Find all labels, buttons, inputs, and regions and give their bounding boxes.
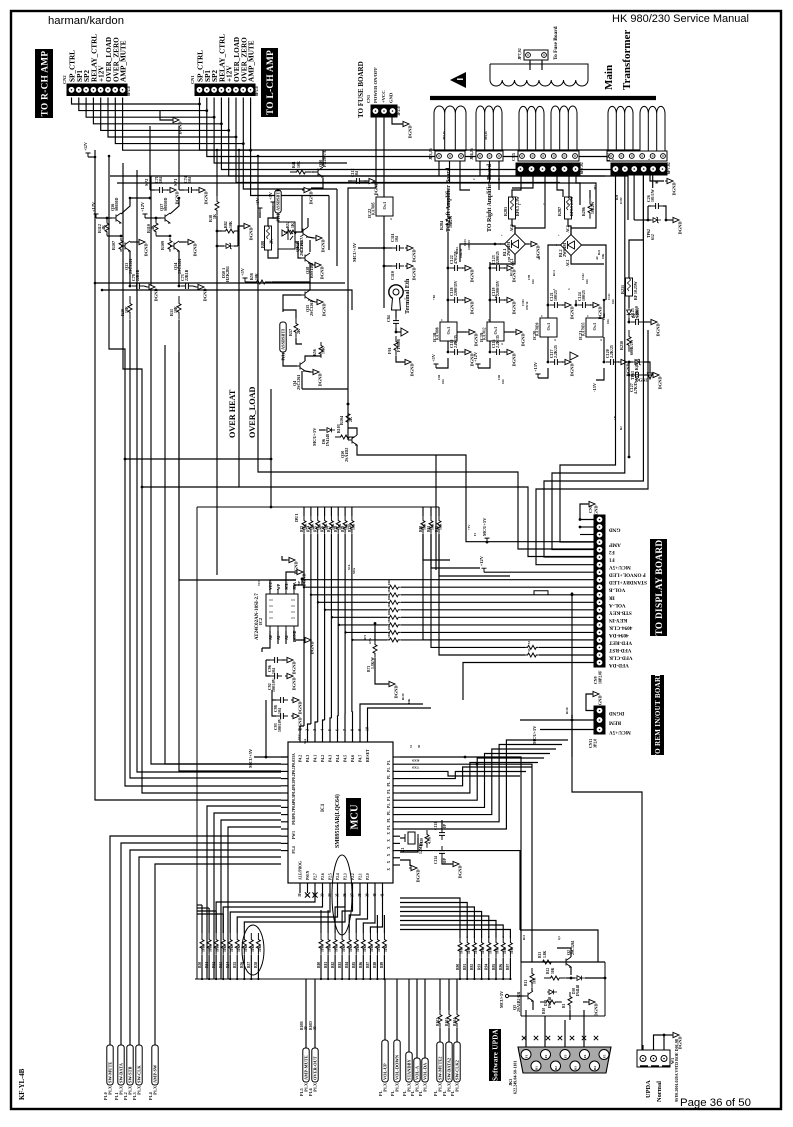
ground C127 (651, 372, 663, 389)
svg-text:VOL-DOWN: VOL-DOWN (395, 1054, 400, 1080)
wire MCU right pin 9 (393, 821, 400, 823)
ground C112 (367, 178, 379, 195)
wire C26 loop left (647, 206, 649, 220)
wire IC2 A2 (285, 631, 287, 644)
wire BL1 minus to gnd (526, 243, 530, 245)
wire MCU left pin 3 (281, 778, 288, 780)
svg-text:10K: 10K (229, 221, 233, 228)
wire IC2 A0 (262, 631, 270, 648)
wire cluster stem down (129, 320, 131, 575)
no-connect X (305, 892, 310, 897)
label box TO L-CH AMP (261, 48, 278, 117)
svg-text:GND: GND (389, 92, 394, 103)
wire bias to lower base (156, 235, 170, 237)
resistor (387, 615, 401, 619)
svg-text:MCU+5V: MCU+5V (532, 725, 537, 744)
resistor R75 10K (316, 516, 320, 534)
svg-text:B3: B3 (573, 1066, 577, 1070)
wire top pin 2 to pullup (308, 724, 311, 734)
ground middle cluster (242, 223, 254, 240)
power flag +12V (473, 351, 481, 368)
svg-text:100/25: 100/25 (554, 290, 558, 301)
wire CN9 VFD-RET row (423, 534, 594, 640)
svg-text:P1.X: P1.X (137, 1086, 142, 1095)
wire CN5 p3 to BL1 (515, 175, 545, 234)
resistor (319, 342, 323, 358)
svg-text:R72: R72 (363, 634, 367, 640)
svg-text:SW-DATA: SW-DATA (119, 1062, 124, 1083)
wire bank1 r0 to bus (201, 955, 203, 979)
wire +5V to opto (273, 206, 278, 218)
wire JK3 pin3 (564, 1020, 566, 1047)
svg-text:R107: R107 (111, 241, 116, 250)
svg-text:CN3: CN3 (366, 95, 371, 103)
junction (647, 219, 650, 222)
wire cap gnd (504, 299, 505, 301)
wire to bank2 r1 (342, 893, 352, 933)
net flag P1.x STANDBY (406, 1052, 412, 1092)
resistor R81 10K (326, 933, 330, 955)
label box TO R-CH AMP (35, 49, 53, 118)
wire cap gnd (590, 304, 591, 306)
svg-text:R1: R1 (562, 1003, 566, 1008)
wire bank1 r4 to bus (229, 955, 231, 979)
svg-text:DGND: DGND (204, 192, 209, 205)
svg-text:10K: 10K (387, 609, 391, 615)
svg-text:P1.: P1. (390, 1090, 395, 1096)
resistor (154, 219, 158, 236)
svg-text:104: 104 (355, 171, 359, 177)
wire BL2 - out (582, 245, 607, 300)
zener diode (633, 359, 643, 365)
annotation ellipse bank1 (242, 925, 264, 975)
wire down to C127 (628, 362, 630, 375)
wire bank3 col 4 (400, 916, 489, 938)
wire bus y290 (102, 290, 352, 310)
svg-text:AMP_MUTE: AMP_MUTE (248, 40, 256, 82)
junction (571, 592, 574, 595)
wire rail B down (489, 262, 491, 322)
svg-text:33: 33 (527, 641, 531, 645)
svg-text:C121: C121 (607, 293, 611, 300)
wire R58 to Q38e (272, 263, 310, 282)
wire xtal1 (400, 837, 405, 839)
wire OVER_LOAD to CN9 F2 (258, 156, 594, 549)
svg-text:VOL-A: VOL-A (415, 1065, 420, 1080)
svg-text:SP1: SP1 (173, 179, 178, 186)
svg-text:MCU+5V: MCU+5V (609, 564, 631, 570)
wire CN2 pin1 to CN1 (72, 98, 200, 105)
wire cap gnd (504, 267, 505, 269)
wire r bottom (120, 251, 122, 253)
transformer separator bar (430, 96, 656, 100)
wire IC20 out (547, 337, 549, 362)
ground Q40 (302, 187, 314, 204)
junction (94, 282, 97, 285)
svg-text:R13: R13 (538, 952, 542, 958)
svg-text:WP: WP (277, 583, 281, 590)
wire MCU right pin5 staircase (400, 767, 532, 786)
bridge rectifier BL1 2W04M (505, 234, 526, 255)
wire MCU right pin8 staircase (400, 754, 550, 808)
svg-text:8P2.0: 8P2.0 (254, 86, 259, 96)
svg-text:1: 1 (377, 193, 379, 197)
svg-text:2K: 2K (349, 417, 353, 422)
junction (489, 267, 492, 270)
connector JK3 622.249.04-S0-1101 (D-sub) (518, 1047, 611, 1073)
wire IC2 vcc rail (270, 580, 296, 589)
svg-text:10K: 10K (467, 947, 471, 954)
svg-text:P2.1: P2.1 (358, 873, 362, 880)
wire MCU bottom pin 5 (337, 883, 339, 893)
junction (489, 299, 492, 302)
resistor R104 33 (455, 1010, 459, 1028)
svg-text:P1.: P1. (402, 1090, 407, 1096)
resistor R90 10K (421, 516, 425, 534)
update circuit outline (521, 962, 605, 1016)
svg-text:10K: 10K (251, 945, 255, 952)
wire bus to flag VOL-DOWN (396, 979, 398, 1040)
svg-text:R104: R104 (453, 1018, 457, 1026)
svg-text:10K: 10K (384, 945, 388, 952)
wire REM line (520, 719, 594, 721)
wire CN2 pin8 to CN1 (123, 98, 251, 151)
resistor R88 10K (375, 933, 379, 955)
power flag +5V (240, 267, 248, 282)
wire pullup 3 down (317, 534, 319, 722)
junction (447, 299, 450, 302)
resistor R97 10K (508, 936, 512, 958)
svg-text:3: 3 (554, 338, 556, 342)
wire CN2 pin4 to CN1 (93, 98, 221, 124)
svg-text:R52: R52 (286, 221, 290, 228)
fusible resistor (626, 278, 633, 296)
junction (603, 299, 606, 302)
svg-text:+5V: +5V (431, 353, 436, 362)
svg-text:VOL-B: VOL-B (608, 587, 625, 593)
svg-text:R87: R87 (366, 962, 370, 968)
wire CN9 VFD-CLK row b (539, 654, 594, 656)
transformer secondary winding 4a (608, 106, 633, 151)
wire rail A down (447, 262, 449, 322)
junction (579, 518, 582, 521)
wire drop x337 (336, 189, 338, 266)
svg-text:-15V: -15V (592, 382, 597, 392)
wire opto cathode (268, 249, 278, 258)
fusible resistor (509, 197, 516, 219)
capacitor (181, 283, 193, 289)
wire long bus to MCU P0.5 (151, 176, 281, 764)
svg-text:CN1: CN1 (190, 75, 195, 84)
svg-text:P2.6: P2.6 (321, 873, 325, 880)
junction (351, 639, 353, 641)
wire bank3 col 3 (400, 912, 482, 939)
svg-text:2200/25: 2200/25 (496, 251, 500, 264)
power +12V top left (84, 142, 91, 157)
ground CN3 (401, 121, 413, 138)
wire bank1 r1 to bus (208, 955, 210, 979)
wire CN9 row12 left (318, 601, 387, 603)
wire MCU bottom pin 4 (329, 883, 331, 893)
connector CN7 (6P7.92) (611, 163, 667, 175)
capacitor (578, 302, 590, 308)
svg-text:P1.: P1. (387, 789, 391, 794)
wire bank1 r6 to bus (243, 955, 245, 979)
svg-text:B4: B4 (593, 1066, 597, 1070)
resistor R76 10K (323, 516, 327, 534)
wire to bank2 r5 (370, 893, 382, 933)
capacitor (606, 359, 618, 365)
power flag +5V (255, 197, 263, 212)
svg-text:DGND: DGND (408, 126, 413, 139)
svg-text:R13: R13 (522, 934, 526, 940)
svg-text:DGND: DGND (474, 334, 479, 347)
svg-text:VCC: VCC (257, 580, 261, 587)
capacitor (439, 828, 445, 840)
wire CN1 pin7 run right (243, 98, 337, 190)
svg-text:R103: R103 (337, 424, 341, 433)
resistor R92 10K (472, 936, 476, 958)
junction (476, 763, 479, 766)
wire bank3 col 1 (400, 903, 467, 939)
wire CN7 p3 down (633, 175, 635, 220)
svg-text:SCL: SCL (347, 564, 351, 570)
wire CN9 row15 left (339, 624, 387, 626)
wire bank3 r3 to bus (481, 958, 483, 979)
resistor (394, 336, 398, 356)
svg-text:HZK2B1: HZK2B1 (225, 266, 230, 282)
svg-text:+15V: +15V (533, 361, 538, 372)
svg-text:VFD-RET: VFD-RET (608, 639, 632, 645)
svg-text:10K: 10K (237, 945, 241, 952)
junction (383, 247, 386, 250)
svg-text:R57: R57 (288, 329, 293, 336)
svg-text:DGND: DGND (658, 377, 663, 390)
wire JP3 drop 3 (460, 161, 470, 190)
op-amp style buffer mark (570, 352, 578, 360)
svg-text:R55: R55 (233, 962, 237, 968)
svg-text:1K: 1K (291, 223, 295, 228)
wire JK3 pin4 (583, 1010, 585, 1047)
svg-text:R91: R91 (463, 964, 467, 970)
svg-text:10K: 10K (125, 306, 129, 313)
bus junction (481, 978, 483, 980)
svg-text:10K: 10K (387, 601, 391, 607)
wire MCU right pin9 staircase (400, 749, 556, 815)
wire Q38 collector (309, 240, 311, 252)
junction (317, 601, 319, 603)
svg-text:10K: 10K (488, 947, 492, 954)
wire bank3 col 0 (400, 898, 460, 938)
svg-text:B1: B1 (534, 1066, 538, 1070)
svg-text:P1.: P1. (387, 767, 391, 772)
svg-text:ASSBSBTI: ASSBSBTI (281, 329, 286, 350)
svg-text:2W04M: 2W04M (562, 243, 567, 257)
wire MCU left pin 6 (281, 799, 288, 801)
bus junction (495, 978, 497, 980)
junction (628, 374, 631, 377)
svg-text:R81: R81 (324, 962, 328, 968)
ground C93 (291, 713, 303, 730)
wire pullup rail y507 (197, 506, 439, 508)
wire bank2 col 9 (383, 915, 385, 933)
resistor (335, 435, 355, 439)
wire drop x436 (435, 455, 437, 570)
wire Q40 up (322, 150, 324, 166)
resistor (105, 219, 109, 236)
wire MCU left pin 0 (281, 756, 288, 758)
resistor R86 10K (361, 933, 365, 955)
wire to bank2 r2 (349, 893, 360, 933)
wire MCU bottom pin 2 (314, 883, 316, 893)
wire to R82 (217, 230, 222, 232)
resistor R90 10K (458, 936, 462, 958)
wire pullup r2 top (438, 507, 440, 516)
wire left pin12 to flag (121, 843, 281, 1045)
svg-text:P1.: P1. (387, 781, 391, 786)
svg-text:RF0.5 2.3W: RF0.5 2.3W (570, 196, 574, 216)
wire CN9 pin2 (580, 526, 594, 528)
svg-text:+5V: +5V (240, 267, 245, 276)
ground C118 (463, 297, 475, 314)
svg-text:10K: 10K (407, 698, 411, 704)
capacitor (492, 265, 504, 271)
svg-text:R119: R119 (401, 693, 405, 700)
capacitor (450, 297, 462, 303)
svg-text:0.5W: 0.5W (619, 197, 623, 204)
svg-text:F3: F3 (563, 1054, 567, 1058)
connector CN3 (3P2.0) (371, 105, 397, 117)
svg-text:DGND: DGND (656, 324, 661, 337)
svg-text:UPDA: UPDA (645, 1080, 652, 1098)
capacitor (392, 245, 404, 251)
wire A collector jog (130, 197, 150, 199)
net flag P1.2 SW-STB (127, 1045, 133, 1095)
zener diode (224, 243, 234, 249)
svg-text:104: 104 (606, 319, 610, 324)
wire MCU top pin 8 (352, 734, 354, 742)
wire MCU bottom pin 0 (299, 883, 301, 893)
junction (374, 622, 377, 625)
svg-text:F01: F01 (387, 347, 392, 354)
wire R71 top (374, 623, 376, 640)
ground IC2 WP (295, 569, 307, 586)
transformer secondary winding 2 (476, 106, 502, 151)
junction (570, 977, 573, 980)
wire Q4 emitter run (302, 388, 348, 390)
wire x217 long down (216, 216, 218, 575)
resistor R77 10K (329, 516, 333, 534)
wire 5V rail up (265, 700, 267, 757)
wire CN7 gnd (650, 175, 664, 181)
transistor (296, 361, 305, 371)
pin strip above CN7 (607, 151, 667, 161)
junction (310, 594, 312, 596)
junction (249, 149, 252, 152)
svg-text:P0.8: P0.8 (292, 818, 296, 825)
wire W1 pin3 up (663, 1035, 665, 1050)
wire BL1 + out (460, 244, 505, 262)
transformer primary winding (490, 64, 588, 86)
ground C121 (563, 302, 575, 319)
svg-text:P1.: P1. (387, 825, 391, 830)
wire MCU right pin6 staircase (400, 763, 538, 794)
svg-text:F1: F1 (609, 557, 615, 563)
svg-text:4.7K: 4.7K (428, 837, 432, 844)
wire CN9 row13 left (325, 609, 387, 611)
svg-text:WP: WP (297, 581, 301, 586)
svg-text:P0.1: P0.1 (292, 767, 296, 774)
wire bank1 r3 to bus (222, 955, 224, 979)
wire left pin10 to bus (228, 827, 281, 979)
ground C116 (505, 349, 517, 366)
resistor R80 10K (319, 933, 323, 955)
wire to bank1 r4 (244, 893, 345, 933)
warning arrowhead (450, 72, 466, 88)
wire CN9 VFD-CLK row a (439, 534, 525, 655)
svg-text:P1.1: P1.1 (114, 1092, 119, 1100)
svg-text:P0.3: P0.3 (292, 782, 296, 789)
svg-text:R58: R58 (254, 962, 258, 968)
svg-text:P1.6: P1.6 (308, 1088, 313, 1096)
connector CN11 (3P2.0) (594, 706, 605, 734)
svg-text:10K: 10K (370, 945, 374, 952)
wire primary lead 1 (529, 60, 531, 70)
svg-text:P0.0: P0.0 (292, 760, 296, 767)
wire bank3 r1 to bus (466, 958, 468, 979)
wire drop x329 (328, 196, 330, 251)
wire IR down to W1 (572, 595, 642, 1050)
svg-text:30: 30 (417, 745, 421, 749)
wire CN9 pin9 STANDBY+LED (302, 579, 594, 581)
junction (216, 230, 219, 233)
annotation ellipse (332, 855, 352, 935)
junction (347, 403, 350, 406)
wire left pin13 to flag (130, 850, 281, 1045)
wire MCU bottom pin 6 (344, 883, 346, 893)
wire to D50 (217, 245, 224, 247)
capacitor (439, 846, 445, 858)
wire MCU gnd pin (400, 860, 410, 866)
wire bus to R103 (448, 979, 450, 1010)
wire top pin 3 to pullup (315, 722, 318, 734)
svg-text:R94: R94 (485, 964, 489, 970)
wire bank3 col 2 (400, 907, 474, 938)
svg-text:2W04M: 2W04M (506, 242, 511, 256)
wire MCU bottom pin 10 (374, 883, 376, 893)
wire MCU bottom pin 8 (359, 883, 361, 893)
ground C115 (463, 349, 475, 366)
wire pullup 8 down (351, 534, 353, 712)
wire CN1 pin2 run right (207, 98, 628, 157)
wire node to arrow (396, 331, 401, 333)
wire CN9 row12 right (401, 601, 594, 603)
svg-text:P1.X: P1.X (423, 1083, 428, 1092)
power flag MCU+5V (482, 517, 490, 542)
wire SP2 tap (149, 126, 151, 190)
wire CN7 p1 to CN9 AMP (560, 175, 616, 542)
svg-text:+B2: +B2 (494, 294, 498, 300)
bus junction (466, 978, 468, 980)
bus junction (502, 978, 504, 980)
wire cap to gnd (144, 286, 147, 287)
svg-text:IR: IR (609, 594, 615, 600)
svg-text:RESET: RESET (366, 749, 370, 762)
net flag P1.6 OVER-OUT (312, 1048, 318, 1092)
svg-text:10R2W: 10R2W (591, 201, 595, 214)
svg-text:R56: R56 (313, 349, 317, 356)
svg-text:VOL-A: VOL-A (609, 602, 626, 608)
